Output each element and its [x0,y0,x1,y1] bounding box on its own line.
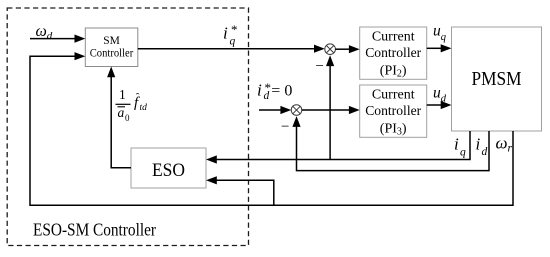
svg-text:Current: Current [372,30,415,45]
svg-text:i: i [476,135,481,154]
svg-text:ESO: ESO [152,160,185,181]
svg-text:Current: Current [372,88,415,103]
wire u_d from PI3 to PMSM [427,101,452,109]
block PMSM [452,27,542,131]
svg-text:ud: ud [433,85,447,105]
svg-text:Controller: Controller [90,48,134,60]
summing junction 1 (i_q* - i_q) [325,44,336,55]
wire u_q from PI2 to PMSM [427,44,452,52]
block Current Controller (PI3) [360,85,427,138]
wire i_q feedback: PMSM bottom to ESO and to summing junction 1 [206,55,470,163]
svg-text:PMSM: PMSM [472,69,522,90]
svg-text:ωd: ωd [36,23,53,42]
svg-text:d: d [482,146,488,158]
label omega_d [36,23,53,42]
svg-text:(PI2): (PI2) [380,64,407,80]
wire i_d feedback: PMSM bottom to summing junction 2 [292,116,489,171]
label i_q* [223,22,238,48]
summing junction 2 (i_d* - i_d) [291,105,302,116]
svg-text:1: 1 [119,87,126,102]
svg-text:ωr: ωr [496,134,513,155]
svg-text:0: 0 [125,113,130,123]
wire i_d*=0 input to summing junction 2 [259,106,291,114]
svg-text:ESO-SM Controller: ESO-SM Controller [33,220,156,240]
svg-text:ˆ: ˆ [136,92,140,104]
svg-text:Controller: Controller [365,46,421,61]
label i_q [454,135,466,159]
label i_d* = 0 [257,80,292,102]
wire summing junction 1 to Current Controller (PI2) [335,45,359,53]
block ESO [131,148,206,188]
wire omega_r feedback: PMSM bottom to SM Controller second input [30,52,513,205]
svg-text:i: i [257,81,262,100]
svg-text:q: q [460,147,466,159]
svg-text:i: i [454,135,459,154]
svg-text:(PI3): (PI3) [380,122,407,138]
dashed subsystem boundary ESO-SM Controller [7,8,248,246]
svg-text:= 0: = 0 [271,83,292,100]
svg-text:−: − [281,119,289,135]
svg-text:Controller: Controller [365,104,421,119]
wire ESO output to SM Controller bottom input [107,67,131,168]
svg-text:−: − [316,59,324,75]
svg-text:SM: SM [103,35,120,47]
label 1/a0_bar f_hat_td on ESO-to-SM wire [116,87,148,123]
svg-text:i: i [223,24,228,43]
svg-text:q: q [230,35,236,47]
block Current Controller (PI2) [360,27,427,80]
svg-text:uq: uq [433,23,446,44]
wire omega_r branch from feedback line up into ESO second input [206,176,274,205]
wire summing junction 2 to Current Controller (PI3) [302,106,360,114]
label i_d [476,135,488,159]
svg-text:d: d [264,90,270,102]
wire omega_d input into SM Controller [30,35,85,43]
wire i_q* from SM Controller to summing junction 1 [138,45,325,53]
svg-text:td: td [140,103,148,113]
block SM Controller [85,28,138,67]
